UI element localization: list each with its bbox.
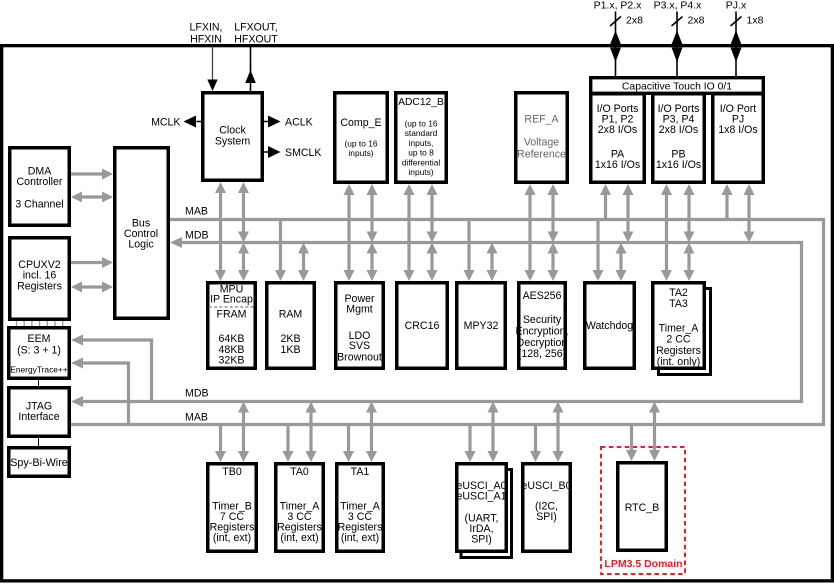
svg-text:Capacitive Touch IO 0/1: Capacitive Touch IO 0/1 [622,82,732,93]
block EEM [9,328,70,379]
svg-text:SPI): SPI) [536,511,557,523]
block CRC16 [397,283,448,369]
svg-text:MPY32: MPY32 [464,320,499,332]
svg-text:Brownout: Brownout [337,352,382,364]
arrow MAB to eUSCI_B0 [534,425,537,452]
arrow MDB to AES256 [551,254,554,271]
svg-text:MDB: MDB [185,230,209,242]
svg-text:32KB: 32KB [219,355,245,367]
svg-text:Comp_E: Comp_E [340,117,381,129]
arrow MAB to Watchdog [596,220,599,271]
svg-text:LPM3.5 Domain: LPM3.5 Domain [604,558,682,570]
svg-text:inputs): inputs) [408,167,433,177]
MDB arrowhead into JTAG [71,396,83,407]
arrow MAB to TB0 [219,425,222,452]
bus MAB (top, right vertical, bottom) [71,220,824,425]
svg-text:(up to 16: (up to 16 [344,139,377,149]
CPU-EEM bus ticks [16,321,18,326]
svg-text:ADC12_B: ADC12_B [398,97,444,108]
MCLK output arrow [197,121,202,123]
arrow Clock System to MPU/FRAM (long) [219,193,222,270]
arrow MDB to RTC_B [653,413,656,451]
arrow MAB to TA0 [286,425,289,452]
svg-text:Logic: Logic [128,239,154,251]
block I/O Port PJ [713,94,764,183]
svg-text:P1.x, P2.x: P1.x, P2.x [594,0,643,12]
block TA0 [276,464,324,552]
arrow Clock System to MDB [242,193,245,232]
svg-text:MCLK: MCLK [151,117,180,129]
svg-text:P3.x, P4.x: P3.x, P4.x [654,0,703,12]
svg-text:TA1: TA1 [351,466,370,478]
block ADC12_B [396,93,447,183]
arrow ADC12_B to MDB [430,195,433,232]
LFXIN input wire+arrow [212,46,214,81]
arrow MAB to TA1 [347,425,350,452]
block RTC_B [618,463,667,551]
arrow DMA to Bus Control Logic [71,172,102,175]
svg-text:PJ.x: PJ.x [726,0,747,12]
svg-text:CRC16: CRC16 [405,320,440,332]
arrow MDB to TA2/TA3 [687,254,690,271]
arrow MAB to RAM [279,220,282,271]
svg-text:SVS: SVS [349,340,370,352]
svg-text:LFXOUT,: LFXOUT, [234,22,278,34]
arrow I/O P3P4 to TA2/TA3 (long) [665,195,668,270]
arrow MDB to TB0 [242,413,245,452]
svg-text:Reference: Reference [517,149,566,161]
block Power Mgmt [336,283,384,369]
arrow MDB to Watchdog [619,254,622,271]
svg-text:eUSCI_B0: eUSCI_B0 [521,480,571,492]
block RAM [267,283,315,369]
block JTAG Interface [9,388,70,437]
svg-text:1x8: 1x8 [747,15,764,27]
bus MDB (top, right vertical, bottom) [82,243,802,402]
arrow MDB to CRC16 [430,254,433,271]
block I/O Ports P3 P4 [653,94,705,183]
svg-text:inputs,: inputs, [409,138,434,148]
wire EEM to JTAG [38,380,40,386]
arrow MAB to eUSCI_A [468,425,471,452]
svg-text:(int, ext): (int, ext) [213,532,251,544]
arrow I/O P1P2 to MAB [604,195,607,220]
arrow ADC12_B to CRC16 (long) [407,195,410,270]
block MPU FRAM [208,283,256,369]
MDB arrowhead into Bus Control Logic [170,237,182,248]
svg-text:MAB: MAB [185,206,208,218]
LPM3.5 Domain dashed box [601,447,685,574]
svg-text:SMCLK: SMCLK [285,147,322,159]
svg-text:(128, 256): (128, 256) [518,348,566,360]
arrow I/O PJ to MDB [747,195,750,232]
arrow MDB to TA0 [309,413,312,452]
arrow MDB to TA1 [370,413,373,452]
block AES256 [519,283,566,369]
svg-text:(up to 16: (up to 16 [404,119,437,129]
arrow CPU to Bus Control Logic [71,261,102,264]
wire MDB to EEM [82,340,152,400]
arrow DMA-BCL bidirectional [82,195,102,198]
port pins P3.x, P4.x [676,12,678,78]
arrow I/O P1P2 to MDB [626,195,629,232]
svg-text:Registers: Registers [17,281,62,293]
svg-text:(S: 3 + 1): (S: 3 + 1) [17,345,61,357]
arrow REF_A to MDB [551,195,554,232]
block Bus Control Logic [115,148,169,319]
svg-text:Watchdog: Watchdog [586,320,633,332]
svg-text:MDB: MDB [185,388,209,400]
svg-text:1x8 I/Os: 1x8 I/Os [718,124,757,136]
svg-text:System: System [215,136,250,148]
svg-text:inputs): inputs) [348,148,373,158]
svg-text:Security: Security [523,314,562,326]
svg-text:(int. only): (int. only) [657,356,701,368]
wire JTAG to Spy-Bi-Wire [38,438,40,446]
svg-text:standard: standard [405,128,438,138]
arrow I/O PJ to MAB [725,195,728,220]
svg-text:3 Channel: 3 Channel [15,199,63,211]
svg-text:TB0: TB0 [222,466,242,478]
svg-text:IP Encap: IP Encap [210,294,253,306]
svg-text:TA0: TA0 [290,466,309,478]
svg-text:2x8 I/Os: 2x8 I/Os [598,124,637,136]
svg-text:FRAM: FRAM [216,309,246,321]
block CPUXV2 [10,238,70,320]
block TA2 TA3 (stacked) [659,289,711,375]
svg-text:HFXOUT: HFXOUT [234,34,278,46]
svg-text:EnergyTrace++: EnergyTrace++ [10,365,68,375]
svg-text:1KB: 1KB [280,344,300,356]
svg-text:EEM: EEM [28,333,51,345]
svg-text:Interface: Interface [18,411,59,423]
block Watchdog [585,283,635,369]
arrow MDB to MPY32 [490,254,493,271]
block Spy-Bi-Wire [9,448,70,477]
block Comp_E [335,93,388,183]
svg-text:up to 8: up to 8 [408,148,434,158]
block Capacitive Touch IO 0/1 [591,78,764,94]
block I/O Ports P1 P2 [591,94,645,183]
arrow MDB to Power Mgmt [370,254,373,271]
svg-text:eUSCI_A1: eUSCI_A1 [456,491,506,503]
SMCLK output arrow [264,151,268,153]
port pins P1.x, P2.x [615,12,617,78]
arrow MDB to MPU/FRAM [242,254,245,271]
arrow Comp_E to MDB [370,195,373,232]
svg-text:1x16 I/Os: 1x16 I/Os [595,159,640,171]
svg-text:2x8 I/Os: 2x8 I/Os [659,124,698,136]
svg-text:Encryption,: Encryption, [516,326,569,338]
svg-text:HFXIN: HFXIN [190,34,222,46]
arrow MAB to RTC_B [630,425,633,451]
svg-text:AES256: AES256 [523,290,562,302]
block Clock System [203,93,263,181]
port pins PJ.x [735,12,737,78]
arrow REF_A to AES256 (long) [528,195,531,270]
svg-text:Voltage: Voltage [524,137,559,149]
svg-text:1x16 I/Os: 1x16 I/Os [656,159,701,171]
arrow MDB to eUSCI_B0 [556,413,559,452]
svg-text:Spy-Bi-Wire: Spy-Bi-Wire [10,457,68,469]
svg-text:(int, ext): (int, ext) [341,532,379,544]
svg-text:Mgmt: Mgmt [346,304,373,316]
block eUSCI_B0 [523,464,571,552]
block TA1 [337,464,384,552]
wire MAB to EEM [82,363,129,423]
block TB0 [208,464,257,552]
svg-text:TA3: TA3 [669,298,688,310]
svg-text:(int, ext): (int, ext) [280,532,318,544]
svg-text:2x8: 2x8 [626,15,643,27]
svg-text:MAB: MAB [185,412,208,424]
block MPY32 [457,283,506,369]
svg-text:LFXIN,: LFXIN, [190,22,223,34]
svg-text:2x8: 2x8 [688,15,705,27]
svg-text:RTC_B: RTC_B [625,502,660,514]
svg-text:SPI): SPI) [471,534,492,546]
block eUSCI_A0 A1 (stacked) [461,470,512,558]
arrow CPU-BCL bidirectional [82,285,102,288]
arrow I/O P3P4 to MDB [687,195,690,232]
svg-text:Controller: Controller [17,176,63,188]
LFXOUT output wire+arrow [250,46,252,91]
arrow MDB to eUSCI_A [491,413,494,452]
block DMA Controller [10,148,70,226]
svg-text:differential: differential [402,157,441,167]
svg-text:2 CC: 2 CC [666,334,690,346]
arrow Comp_E to Power Mgmt (long) [347,195,350,270]
arrow MDB to RAM [302,254,305,271]
svg-text:RAM: RAM [279,309,303,321]
arrow MAB to MPY32 [467,220,470,271]
svg-text:ACLK: ACLK [285,117,313,129]
block REF_A [516,93,568,183]
ACLK output arrow [264,121,268,123]
svg-text:REF_A: REF_A [524,114,559,126]
